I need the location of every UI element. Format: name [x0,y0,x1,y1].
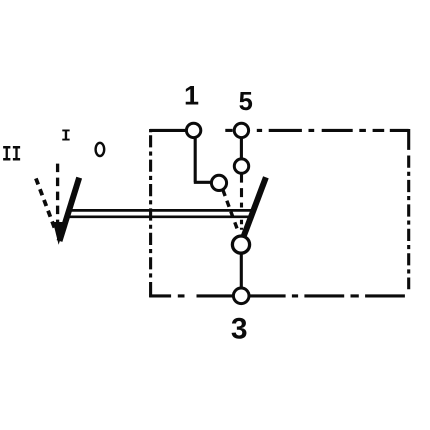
housing top edge dash between terminal 1 and terminal 5 [225,129,232,132]
fixed contact II circle [211,175,226,190]
svg-text:3: 3 [231,313,248,346]
wire from terminal 1 down and right to fixed contact II [194,136,212,182]
solid contact lever (position 0) on right [244,177,266,236]
terminal 3 circle [233,288,249,304]
dashed position-I fragments between linkage and pivot [240,220,243,230]
actuator dashed position-II line [36,178,56,231]
mechanical linkage double line upper [70,209,254,212]
housing top edge (solid stub from top-left corner to terminal 1) [150,129,186,132]
housing right edge (dash-dot) [407,129,410,289]
wire from pivot circle down to terminal 3 [240,253,243,289]
actuator lever tip [53,222,66,245]
pivot circle of moving contact [232,236,249,253]
fixed contact I circle (below terminal 5) [234,159,248,173]
mechanical linkage double line lower [67,215,251,218]
wire from terminal 5 down to fixed contact I [240,136,243,159]
dashed position-I line below fixed contact I [240,174,243,208]
housing left edge (dash-dot) [149,129,152,297]
svg-text:5: 5 [239,86,253,116]
svg-text:I: I [61,126,71,145]
terminal 1 circle [186,123,200,137]
label position 0 (plain oval zero) [96,143,105,156]
svg-text:1: 1 [184,80,199,110]
housing top edge dash-dot from terminal 5 to top-right corner [257,129,409,132]
actuator dashed position-I line [56,164,59,228]
actuator solid lever (position 0) on left [60,178,80,241]
dashed position-II line from fixed contact II toward pivot [223,190,238,232]
svg-text:II: II [2,142,22,167]
housing bottom edge (dash-dot with solid stubs at corners and terminal 3) [149,294,405,297]
terminal 5 circle [234,123,248,137]
